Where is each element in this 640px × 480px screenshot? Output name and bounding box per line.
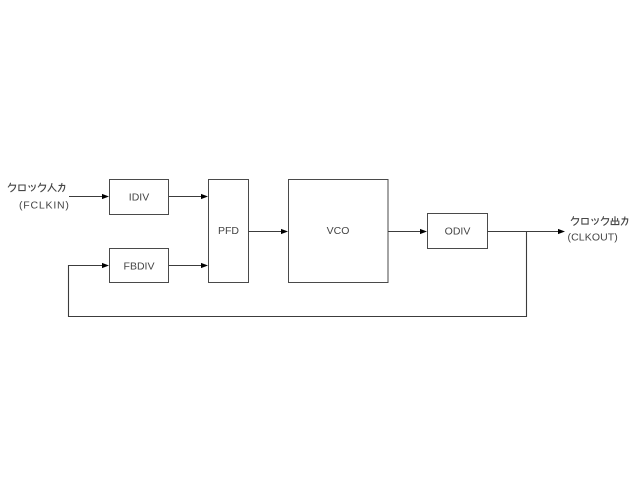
feedback wire from output node down, left, up to FBDIV xyxy=(69,232,527,317)
arrowhead into IDIV xyxy=(102,194,109,199)
label clock output (Japanese) xyxy=(571,217,627,226)
wire FBDIV to PFD xyxy=(169,265,202,267)
wire IDIV to PFD xyxy=(169,196,202,198)
arrowhead into PFD lower xyxy=(201,263,208,268)
wire VCO to ODIV xyxy=(388,231,421,233)
arrowhead into VCO xyxy=(281,229,288,234)
svg-text:(CLKOUT): (CLKOUT) xyxy=(568,231,618,243)
block VCO xyxy=(289,180,389,283)
block PFD xyxy=(209,180,249,283)
block FBDIV xyxy=(110,249,169,283)
wire FCLKIN input to IDIV xyxy=(69,196,103,198)
block ODIV xyxy=(428,214,488,249)
svg-text:FBDIV: FBDIV xyxy=(124,260,155,272)
arrowhead into ODIV xyxy=(420,229,427,234)
svg-text:PFD: PFD xyxy=(218,225,239,237)
arrowhead into FBDIV xyxy=(102,263,109,268)
block IDIV xyxy=(110,180,169,215)
wire ODIV to CLKOUT output xyxy=(488,231,560,233)
label clock input (Japanese) xyxy=(8,183,64,192)
arrowhead CLKOUT output xyxy=(558,229,565,234)
svg-text:(FCLKIN): (FCLKIN) xyxy=(19,199,70,211)
svg-text:ODIV: ODIV xyxy=(445,226,471,238)
arrowhead into PFD upper xyxy=(201,194,208,199)
svg-text:VCO: VCO xyxy=(327,225,350,237)
svg-text:IDIV: IDIV xyxy=(129,191,149,203)
wire PFD to VCO xyxy=(249,231,283,233)
